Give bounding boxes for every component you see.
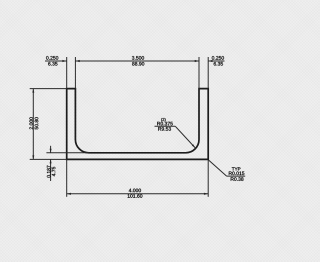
arrowhead 2.000 top (points up) [32,89,34,93]
dimension line 0.187 upper shaft [50,146,52,153]
arrowhead 4.000 left (points left) [67,193,71,195]
leader shoulder bar R0.375 [155,125,176,127]
extension line 4.000 right [207,159,209,196]
extension line 0.187 inner bottom [46,152,89,154]
dimension line 0.187 lower shaft [50,159,52,181]
text 6.35 top-right (mm) [214,62,223,66]
text 88.90 top-middle (mm) [132,62,144,66]
extension line inner-left top [74,57,76,89]
text TYP [232,167,241,170]
extension line outer-left top [66,57,68,89]
arrowhead 0.187 upper (points down) [50,149,52,153]
channel profile outline [67,89,209,160]
text 101.60 bottom (mm) [128,194,143,198]
extension line outer-right top [207,57,209,89]
text (2) qty [161,118,165,122]
arrowhead 0.250-left (points right) [62,60,66,62]
text 50.80 left (mm, rotated) [35,117,39,129]
arrowhead 0.187 lower (points up) [50,159,52,163]
text R9.53 (mm) [158,127,171,131]
text R0.375 (inches) [157,122,173,126]
arrowhead 4.000 right (points right) [204,193,208,195]
text 4.75 (mm, rotated) [52,167,55,176]
dimension line 0.250 top-left [45,60,67,62]
extension line 2.000 top [30,88,67,90]
text 2.000 left (inches, rotated) [29,117,33,129]
leader line R0.375 [175,126,195,147]
extension line inner-right top [198,57,200,89]
text 0.187 (inches, rotated) [47,166,51,178]
arrowhead 2.000 bottom (points down) [32,155,34,159]
text 6.35 top-left (mm) [48,62,57,66]
leader line TYP [209,160,227,176]
text 0.250 top-left (inches) [46,56,58,60]
arrowhead leader R0.375 (points down-right) [192,144,195,148]
text 0.250 top-right (inches) [212,56,224,60]
extension line 2.000 bottom [30,158,67,160]
dimension line 3.500 top-middle [75,60,199,62]
arrowhead 3.500 right (points right) [195,60,199,62]
arrowhead 0.250-right (points left) [208,60,212,62]
text R0.38 (mm) [231,177,244,181]
text 4.000 bottom (inches) [129,189,141,193]
dimension line 4.000 bottom [67,193,209,195]
dimension line 0.250 top-right [208,60,224,62]
dimension line 2.000 left [32,89,34,160]
arrowhead 3.500 left (points left) [75,60,79,62]
extension line 4.000 left [66,159,68,196]
text R0.015 (inches) [229,172,245,176]
text 3.500 top-middle (inches) [132,56,144,60]
leader shoulder bar TYP [227,175,246,177]
